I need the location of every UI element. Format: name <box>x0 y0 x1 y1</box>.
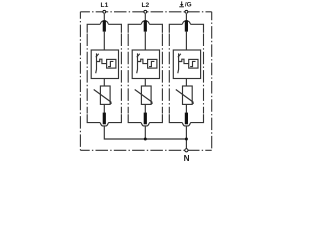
svg-text:/G: /G <box>185 2 192 9</box>
svg-text:N: N <box>184 154 190 163</box>
svg-text:L1: L1 <box>101 2 109 9</box>
svg-text:L2: L2 <box>141 2 149 9</box>
